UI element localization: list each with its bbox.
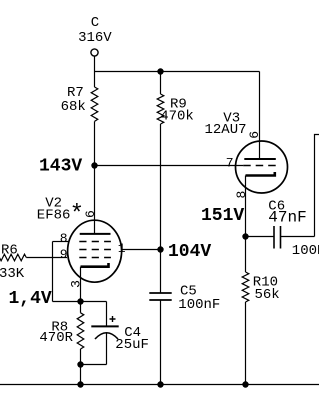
capacitor C4: [106, 302, 108, 327]
V2 cathode: [81, 263, 109, 267]
svg-text:100K: 100K: [292, 243, 319, 259]
svg-text:3: 3: [69, 280, 84, 288]
resistor R6: [0, 254, 26, 261]
wire 143V to V3 grid: [95, 165, 244, 167]
node 104V: [157, 246, 163, 252]
svg-text:7: 7: [226, 156, 234, 171]
svg-text:104V: 104V: [168, 242, 211, 262]
V3 cathode lead wire: [245, 176, 247, 273]
node 151V: [242, 233, 248, 239]
svg-text:1,4V: 1,4V: [9, 289, 52, 309]
svg-text:47nF: 47nF: [268, 208, 306, 226]
capacitor C5: [149, 292, 171, 294]
svg-text:6: 6: [83, 210, 98, 218]
resistor R7: [91, 87, 98, 121]
node R8/C4 junction: [77, 361, 83, 367]
svg-text:6: 6: [247, 131, 262, 139]
resistor R8: [80, 302, 82, 313]
V3 grid dashed row: [243, 165, 276, 167]
capacitor C6: [246, 236, 275, 238]
svg-text:56k: 56k: [255, 287, 280, 303]
wire cathode node horizontal: [53, 301, 107, 303]
rail junction dots: [77, 381, 83, 387]
V3 anode lead: [259, 72, 261, 160]
svg-text:C: C: [91, 15, 99, 31]
wire R9 to 104V node and C5: [160, 124, 162, 293]
resistor R9: [160, 72, 162, 95]
svg-text:100nF: 100nF: [178, 297, 220, 313]
svg-text:R6: R6: [1, 242, 18, 258]
V2 pin 3 cathode lead: [80, 267, 82, 302]
node junction dot R9 top: [157, 68, 163, 74]
terminal C: [91, 49, 98, 56]
svg-text:12AU7: 12AU7: [205, 122, 247, 138]
V2 grid g2 dashed row: [79, 249, 111, 251]
resistor R10: [242, 272, 249, 302]
svg-text:316V: 316V: [78, 30, 112, 46]
svg-text:33K: 33K: [0, 266, 25, 282]
svg-text:EF86: EF86: [37, 207, 71, 223]
ground rail: [0, 384, 319, 386]
V2 pin 1 wire: [122, 249, 161, 251]
svg-text:1: 1: [118, 241, 126, 256]
C4 plus sign: [110, 316, 116, 322]
svg-text:25uF: 25uF: [115, 337, 149, 353]
wire top rail y=71: [95, 71, 260, 73]
svg-text:*: *: [70, 201, 84, 228]
svg-text:151V: 151V: [201, 206, 244, 226]
V2 pin 9 wire: [26, 257, 67, 259]
V2 grid g1 dashed row: [79, 257, 111, 259]
V2 pin 8 wire: [53, 241, 69, 243]
V2 anode plate: [80, 233, 111, 235]
svg-text:470k: 470k: [160, 109, 194, 125]
wire R7 to V2 anode: [94, 121, 96, 233]
svg-text:143V: 143V: [39, 157, 82, 177]
V2 grid g3 dashed row: [79, 241, 111, 243]
svg-text:8: 8: [60, 231, 68, 246]
node 143V: [91, 162, 97, 168]
tube V3 envelope: [236, 141, 288, 193]
svg-text:9: 9: [60, 247, 68, 262]
svg-text:8: 8: [234, 191, 249, 199]
wire to next stage (right edge): [315, 135, 320, 237]
tube V2 envelope: [68, 220, 122, 282]
V3 anode plate: [244, 158, 275, 160]
V3 cathode: [246, 172, 275, 176]
wire terminal C down to R7: [94, 56, 96, 87]
svg-text:470R: 470R: [39, 330, 73, 346]
svg-text:68k: 68k: [61, 99, 86, 115]
